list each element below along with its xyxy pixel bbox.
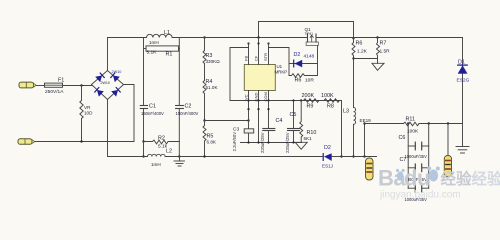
svg-text:经验: 经验 [472,169,500,188]
svg-text:D2: D2 [294,52,301,58]
ground under R7 [372,59,384,71]
diode D2 (4148) [289,60,318,67]
capacitor C7 [408,164,429,172]
node L3 bottom [352,155,354,157]
svg-text:R9: R9 [307,104,314,110]
output terminal J1 [366,158,374,180]
svg-text:TIP41: TIP41 [305,32,314,36]
resistor R1 [144,46,180,51]
resistor R9 [301,99,322,103]
wire plug1 to fuse [36,85,44,87]
svg-text:100K: 100K [321,93,334,99]
svg-text:COM: COM [263,92,268,101]
svg-text:R1: R1 [166,52,173,58]
svg-text:330KΩ: 330KΩ [206,59,221,64]
node live/varistor junction [80,84,82,86]
diode bridge BL [97,90,103,96]
svg-text:51.0K: 51.0K [206,85,219,90]
svg-text:jingyan.baidu.com: jingyan.baidu.com [379,190,461,201]
svg-text:6.8K: 6.8K [207,140,217,145]
svg-text:U1: U1 [277,64,283,69]
resistor R4 [203,79,206,121]
pin STR riser [269,48,290,65]
node pin VC crossing [247,99,249,101]
node C5 bottom [292,141,294,143]
svg-text:C3: C3 [233,127,239,133]
wire top to R7 [354,37,463,39]
svg-text:200K: 200K [302,93,315,99]
wire pin loop left vertical to y100 [230,100,342,102]
wire node B down [178,142,180,157]
IC U1 [244,65,275,91]
diode D2 output [323,154,341,161]
node pin COM crossing [267,99,269,101]
fuse F1 [45,83,63,87]
capacitor C5 [288,101,300,143]
svg-text:VR: VR [84,105,91,110]
inductor L1 [144,34,180,37]
svg-text:250V/1A: 250V/1A [45,89,64,95]
main top wire to IC area [179,37,307,39]
resistor R6 1.2K [352,38,355,58]
node J2 top [447,122,449,124]
svg-text:经验: 经验 [441,169,473,188]
svg-text:1.2K: 1.2K [357,49,368,55]
svg-text:C7: C7 [400,157,407,163]
node pin GND crossing [257,99,259,101]
inductor L2 [144,154,180,156]
ground under node B [174,157,185,167]
plug P2 [18,139,35,145]
diode D1 [458,65,467,73]
node pin STR stub [267,42,269,44]
svg-text:1mH: 1mH [149,40,159,45]
watermark baidu jingyan [378,166,500,201]
node pin2 riser crossing [257,36,259,38]
svg-text:CF: CF [253,55,258,61]
svg-text:ES2G: ES2G [457,78,470,84]
rail continue to output [342,156,377,158]
output terminal J2 [444,124,451,177]
node R6top [352,37,354,39]
capacitor C2 [176,106,184,142]
node A top of R2 [142,140,144,142]
svg-text:100K: 100K [407,128,419,134]
node R9 left / R10 top [300,99,302,101]
svg-text:150nF/400V: 150nF/400V [141,111,164,116]
transistor Q1 [306,34,353,46]
varistor VR1 [80,86,83,142]
node rail x341 [340,155,342,157]
node varistor bottom [80,140,82,142]
svg-text:2W10: 2W10 [112,70,122,74]
diode bridge BR [112,90,118,96]
polarity marks [247,108,249,110]
svg-text:MRKP: MRKP [275,70,288,75]
caps ground rail [241,142,302,144]
svg-text:R11: R11 [406,116,416,122]
svg-text:C5: C5 [290,112,297,118]
riser rail to R11 wire [364,124,366,157]
svg-text:4148: 4148 [304,54,315,60]
node R4 bottom [203,119,205,121]
svg-text:D1: D1 [458,60,465,66]
node C4 bottom [267,141,269,143]
resistor R7 [377,38,380,59]
svg-text:ES1J: ES1J [322,163,333,168]
svg-text:2W10: 2W10 [101,81,110,85]
svg-text:10R: 10R [305,78,314,84]
ground under R10 [295,142,307,149]
svg-text:1mH: 1mH [151,162,161,167]
node A on rail [142,155,144,157]
wire bridge right to riser [124,85,135,142]
wire R4 bottom to C3 [205,120,249,122]
svg-text:STR: STR [263,53,268,61]
node C6 rail left [407,122,409,124]
top loop wire [259,22,354,38]
resistor R5 [203,121,206,157]
svg-text:2.2uF/50V: 2.2uF/50V [232,132,237,152]
node GND pin bottom [257,141,259,143]
svg-text:L1: L1 [164,30,170,36]
resistor R10 [300,101,303,142]
svg-text:10D: 10D [84,111,93,116]
svg-text:F1: F1 [58,78,64,84]
node C5 top [292,99,294,101]
node C6 rail right [428,122,430,124]
node pin FB stub [247,42,249,44]
node C3 tap [247,119,249,121]
wire bridge top up [108,38,144,71]
svg-text:220uF/25V: 220uF/25V [285,132,290,153]
wire node A down [143,142,145,157]
node R3 top [203,36,205,38]
svg-text:L3: L3 [343,109,349,115]
svg-text:5K1: 5K1 [304,136,313,141]
wire L1R1 left node [143,38,145,106]
node pin CF stub [257,42,259,44]
svg-text:C6: C6 [399,135,406,141]
cap ladder rails [407,124,409,189]
plug P1 [19,82,36,88]
node R5 bottom [203,155,205,157]
wire plug2 [35,141,134,143]
wire fuse to bridge [63,85,92,87]
svg-text:1.5R: 1.5R [380,49,391,55]
svg-text:R6: R6 [295,78,302,84]
capacitor C1 [140,106,147,142]
bottom pins of IC [248,91,250,129]
svg-text:R7: R7 [380,41,387,47]
node B on rail [178,155,180,157]
svg-text:R6: R6 [356,41,363,47]
wire bridge bottom down to dc- rail [107,100,109,157]
node R11 wire left [363,122,365,124]
svg-text:FB: FB [243,56,248,61]
diode bridge TR [113,76,119,82]
wire y100 right corner down [341,101,343,157]
capacitor C3 [244,129,254,143]
svg-text:5.1K: 5.1K [147,50,158,56]
svg-text:L2: L2 [166,149,172,155]
node C3 bottom [247,141,249,143]
node R7 top [376,36,378,38]
dc- rail [108,156,144,158]
wire L1R1 right node [178,38,180,106]
svg-text:150nF/400V: 150nF/400V [176,111,199,116]
wire right down from top [462,38,464,124]
diode bridge TL [96,76,102,82]
svg-text:220uF/25V: 220uF/25V [260,132,265,153]
svg-text:C2: C2 [185,104,192,110]
svg-text:R2: R2 [158,136,165,142]
svg-text:EE19: EE19 [360,118,372,123]
svg-text:C1: C1 [149,104,156,110]
capacitor C8 [408,184,429,192]
resistor R3 [203,38,206,79]
R11 wire [365,123,404,125]
pin CF riser [258,38,260,65]
resistor R8 [323,99,342,103]
wire R6 bottom to R7 bottom [354,58,378,60]
svg-text:R8: R8 [327,104,334,110]
svg-text:C4: C4 [276,118,283,124]
pin FB riser [230,48,249,101]
svg-text:GND: GND [253,93,258,102]
svg-text:1000uF/35V: 1000uF/35V [405,154,428,159]
svg-text:VC: VC [243,94,248,100]
node rail to riser [363,155,365,157]
resistor R2 [144,140,180,144]
resistor R11 [404,122,420,126]
bridge rectifier B1 [92,71,124,100]
svg-text:du: du [404,166,430,191]
capacitor C6 [408,142,429,150]
inductor L3 [354,59,356,157]
capacitor C4 [263,129,275,143]
earth ground right [456,124,469,154]
resistor R6 10R [289,46,318,78]
svg-text:D2: D2 [324,145,331,151]
